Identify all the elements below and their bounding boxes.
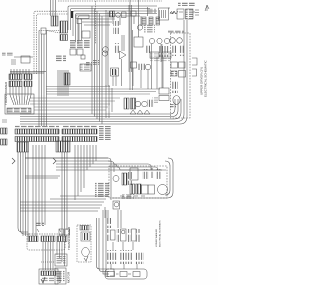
svg-text:ELECTRICAL SCHEMATIC: ELECTRICAL SCHEMATIC [158,220,161,247]
svg-text:MOTOR: MOTOR [67,271,71,283]
svg-text:TRANSFORMER: TRANSFORMER [4,81,8,105]
svg-text:ELECTRICAL SCHEMATIC: ELECTRICAL SCHEMATIC [204,59,208,97]
svg-text:LOWER WASHER: LOWER WASHER [155,228,158,247]
svg-text:TRANSFORMER: TRANSFORMER [67,226,71,250]
